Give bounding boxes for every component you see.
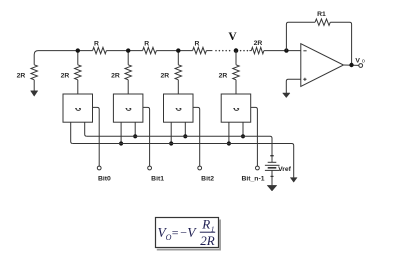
svg-text:V: V: [355, 57, 360, 64]
svg-text:=: =: [172, 225, 179, 239]
terminal circle Bit2: [198, 166, 202, 170]
svg-text:−: −: [180, 225, 187, 239]
wire switch mid stub to upper bus: [184, 122, 186, 136]
wire lower bus (to ground): [73, 144, 294, 178]
svg-text:Bit_n-1: Bit_n-1: [241, 176, 264, 183]
wire switch mid stub to upper bus: [85, 122, 87, 136]
ground arrow terminator: [31, 91, 38, 96]
wire switch mid stub to upper bus: [134, 122, 136, 136]
terminal circle Vo: [359, 64, 363, 68]
resistor 2R to op-amp: [251, 47, 264, 53]
op-amp U1 triangle: [301, 44, 344, 87]
svg-text:R: R: [144, 41, 149, 48]
battery Vref: [271, 161, 273, 163]
svg-text:Bit2: Bit2: [201, 176, 214, 183]
wire switch left stub to lower bus: [71, 122, 73, 143]
switch U1 (box): [63, 94, 93, 122]
resistor R ladder segment 2: [143, 47, 157, 53]
node junction dot: [176, 48, 180, 52]
switch U2 (box): [113, 94, 142, 122]
svg-text:R: R: [201, 217, 210, 232]
resistor 2R column 1: [31, 65, 37, 80]
svg-text:2R: 2R: [254, 40, 263, 47]
wire to inverting input: [264, 50, 301, 52]
svg-text:2R: 2R: [111, 72, 120, 79]
node junction dot: [76, 48, 80, 52]
wire switch right pin to Bit1 terminal: [143, 107, 150, 166]
ground (right, small arrow): [290, 178, 297, 183]
svg-text:2R: 2R: [160, 72, 169, 79]
svg-text:R1: R1: [317, 11, 326, 18]
wire output: [344, 64, 359, 66]
svg-text:Bit1: Bit1: [151, 176, 164, 183]
wire: [156, 50, 192, 52]
resistor R ladder segment 1: [93, 47, 107, 53]
resistor R1: [315, 19, 330, 25]
junction dot inverting input: [284, 48, 288, 52]
wire upper bus (to Vref): [87, 136, 272, 161]
wire switch left stub to lower bus: [228, 122, 230, 143]
wire battery to ground: [271, 170, 273, 185]
junction dot output: [349, 63, 353, 67]
wire switch left stub to lower bus: [120, 122, 122, 143]
ground (below battery): [267, 185, 277, 191]
svg-text:R: R: [195, 41, 200, 48]
wire non-inverting input to ground: [286, 79, 301, 93]
svg-text:2R: 2R: [219, 72, 228, 79]
resistor 2R column 5: [235, 51, 237, 65]
svg-text:2R: 2R: [61, 72, 70, 79]
wire switch right pin to Bit2 terminal: [193, 107, 200, 166]
svg-text:Bit0: Bit0: [98, 176, 111, 183]
terminal circle Bit_n-1: [256, 166, 260, 170]
wire switch right pin to Bit0 terminal: [93, 107, 100, 166]
svg-text:2R: 2R: [200, 233, 215, 248]
switch U3 (box): [164, 94, 194, 122]
resistor R ladder segment 3: [193, 47, 207, 53]
wire switch left stub to lower bus: [170, 122, 172, 143]
node V junction dot: [234, 48, 239, 53]
svg-text:Vref: Vref: [278, 166, 292, 173]
wire: [106, 50, 142, 52]
node junction dot: [126, 48, 130, 52]
wire feedback rail: [286, 22, 315, 50]
ground (op-amp + input): [283, 93, 290, 98]
wire: [249, 50, 251, 52]
terminal circle Bit0: [97, 166, 101, 170]
wire switch right pin to Bit3 terminal: [251, 107, 258, 166]
resistor 2R column 2: [77, 51, 79, 65]
resistor 2R column 3: [127, 51, 129, 65]
svg-text:V: V: [228, 31, 237, 43]
svg-text:O: O: [166, 233, 172, 242]
switch U4 (box): [221, 94, 251, 122]
terminal circle Bit1: [148, 166, 152, 170]
formula box Vo = -V R1/2R: [157, 220, 220, 250]
svg-text:o: o: [362, 58, 365, 64]
wire with continuation dots: [206, 50, 212, 52]
wire switch mid stub to upper bus: [242, 122, 244, 136]
svg-text:2R: 2R: [17, 72, 26, 79]
resistor 2R column 4: [177, 51, 179, 65]
svg-text:R: R: [94, 41, 99, 48]
wire ladder top rail: [34, 51, 92, 65]
